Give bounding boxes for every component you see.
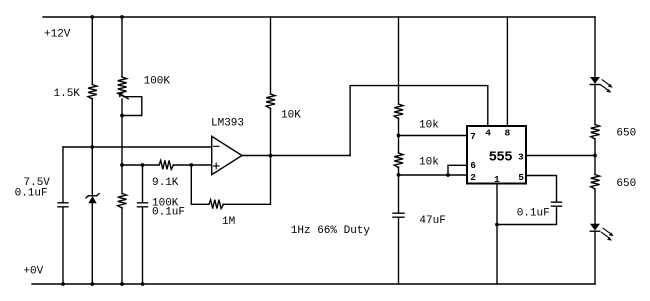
- wire 47uF bottom to rail: [398, 218, 400, 284]
- node pin1 ground junction: [495, 223, 499, 227]
- wire pin2: [399, 174, 468, 176]
- resistor R 10K: [266, 94, 275, 108]
- node pin7 junction: [397, 134, 401, 138]
- svg-text:555: 555: [489, 150, 513, 166]
- wire 1M feedback left leg: [191, 165, 209, 204]
- node bottom rail x=122: [120, 282, 124, 286]
- svg-text:0.1uF: 0.1uF: [15, 187, 48, 199]
- wire 650 lower to LED2: [594, 189, 596, 224]
- capacitor 47uF: [393, 213, 404, 217]
- svg-text:6: 6: [470, 160, 476, 171]
- wire op-amp output: [242, 155, 350, 157]
- wire pin6 jog: [448, 165, 467, 175]
- svg-text:0.1uF: 0.1uF: [152, 206, 185, 218]
- node bottom rail x=92: [90, 282, 94, 286]
- wire pin5 cap to ground wire: [497, 207, 557, 225]
- op-amp U1 LM393: [212, 136, 242, 174]
- svg-text:47uF: 47uF: [419, 215, 445, 227]
- wire 100K resistor top: [121, 165, 123, 194]
- resistor R 10k lower: [394, 153, 403, 168]
- wire 1M feedback right leg: [223, 156, 271, 205]
- svg-text:0.1uF: 0.1uF: [517, 207, 550, 219]
- capacitor 0.1uF left: [58, 203, 68, 207]
- svg-text:3: 3: [518, 152, 524, 163]
- node bottom rail x=63: [61, 282, 65, 286]
- wire zener top: [91, 147, 93, 195]
- svg-text:650: 650: [616, 178, 636, 190]
- wire 555 pin8 from top rail: [506, 17, 508, 126]
- capacitor 0.1uF 555: [552, 202, 562, 206]
- node LED junction pin3: [593, 154, 597, 158]
- svg-text:10k: 10k: [419, 119, 439, 131]
- wire between 10k resistors: [398, 118, 400, 153]
- node junction top rail x=122: [120, 15, 124, 19]
- wire 1.5K branch from top rail: [91, 17, 93, 85]
- wire 10k chain from top rail: [398, 17, 400, 104]
- svg-text:100K: 100K: [144, 75, 171, 87]
- wire pot wiper loop: [122, 97, 142, 116]
- svg-text:2: 2: [470, 172, 476, 183]
- svg-text:7: 7: [470, 131, 476, 142]
- resistor R 9.1K: [159, 160, 174, 169]
- node pot loop junction: [120, 114, 124, 118]
- svg-text:10K: 10K: [281, 109, 301, 121]
- LED D2: [590, 224, 600, 231]
- wire left cap bottom to rail: [62, 207, 64, 284]
- resistor R 100K: [118, 194, 127, 209]
- potentiometer 100K: [118, 77, 127, 96]
- resistor R 650 upper: [591, 125, 600, 140]
- svg-text:LM393: LM393: [211, 118, 244, 130]
- wire pot bottom to plus wire: [121, 99, 123, 165]
- wire 10k lower bottom: [398, 167, 400, 213]
- wire output to 555 reset pin4: [350, 86, 488, 156]
- svg-text:1M: 1M: [222, 216, 235, 228]
- wire 650 upper to node: [594, 139, 596, 175]
- node plus-wire junction x=122: [120, 163, 124, 167]
- svg-text:+12V: +12V: [44, 29, 71, 41]
- svg-text:+0V: +0V: [23, 266, 43, 278]
- wire plus input wire right seg: [173, 164, 212, 166]
- resistor R 1.5K: [88, 85, 97, 99]
- wire mid 0.1uF branch: [142, 165, 144, 202]
- node bottom rail x=142.5: [141, 282, 145, 286]
- node 1M tap junction: [189, 163, 193, 167]
- node minus-wire junction x=92: [90, 145, 94, 149]
- capacitor 0.1uF mid: [138, 203, 148, 207]
- node 0.1uF branch junction x=142.5: [141, 163, 145, 167]
- wire bottom 0V rail: [32, 283, 595, 285]
- svg-text:1Hz 66% Duty: 1Hz 66% Duty: [291, 225, 371, 237]
- LED D1: [590, 77, 600, 84]
- svg-text:1.5K: 1.5K: [54, 88, 81, 100]
- IC U2 555: [467, 126, 526, 184]
- svg-text:5: 5: [518, 172, 524, 183]
- node pin2 junction: [397, 173, 401, 177]
- svg-text:4: 4: [485, 128, 491, 139]
- wire 100K bottom to rail: [121, 208, 123, 285]
- node output junction: [269, 154, 273, 158]
- wire LED2 to rail: [594, 231, 596, 284]
- wire LED branch top: [594, 17, 596, 77]
- wire minus input wire: [63, 146, 212, 148]
- svg-text:650: 650: [616, 128, 636, 140]
- svg-text:9.1K: 9.1K: [152, 177, 179, 189]
- node junction top rail x=92: [90, 15, 94, 19]
- wire left 0.1uF branch down: [62, 147, 64, 202]
- wire pin7: [399, 135, 468, 137]
- resistor R 1M: [209, 200, 224, 209]
- wire 10K bottom to output node: [270, 109, 272, 156]
- wire mid cap bottom to rail: [142, 207, 144, 284]
- node pin6 jog junction: [446, 173, 450, 177]
- wire top +12V rail: [43, 16, 595, 18]
- wire pin1 to rail: [496, 184, 498, 284]
- wire pin3 output: [526, 155, 595, 157]
- svg-text:10k: 10k: [419, 156, 439, 168]
- diode zener 7.5V: [86, 194, 99, 198]
- svg-text:8: 8: [505, 128, 511, 139]
- wire LED1 to 650: [594, 85, 596, 125]
- wire 10K branch from top rail: [270, 17, 272, 94]
- wire 1.5K bottom to minus node: [91, 99, 93, 148]
- wire pin5: [526, 176, 557, 202]
- wire plus input wire left seg: [122, 164, 159, 166]
- resistor R 650 lower: [591, 175, 600, 190]
- resistor R 10k upper: [394, 104, 403, 118]
- wire zener bottom to rail: [91, 203, 93, 284]
- wire pot branch from top rail: [121, 17, 123, 77]
